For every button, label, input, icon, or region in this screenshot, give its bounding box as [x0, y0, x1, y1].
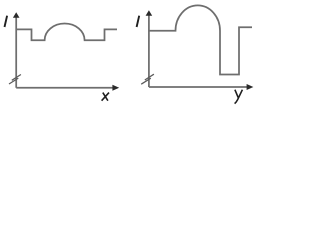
- left plot axis break: [9, 75, 21, 85]
- right plot label I: [137, 16, 140, 27]
- right plot x-axis: [149, 86, 248, 88]
- right plot axis break: [141, 74, 154, 84]
- left plot x-axis arrowhead: [112, 85, 119, 91]
- right plot label y: [235, 90, 243, 104]
- left plot current trace: [16, 24, 117, 41]
- right plot y-axis arrowhead: [146, 10, 153, 16]
- right plot current trace: [149, 5, 252, 74]
- left plot label x: [102, 93, 109, 101]
- left plot label I: [5, 16, 8, 27]
- left plot y-axis: [15, 17, 17, 88]
- left plot x-axis: [16, 87, 113, 89]
- right plot x-axis arrowhead: [247, 84, 254, 90]
- right plot y-axis: [148, 15, 150, 88]
- left plot y-axis arrowhead: [13, 12, 20, 18]
